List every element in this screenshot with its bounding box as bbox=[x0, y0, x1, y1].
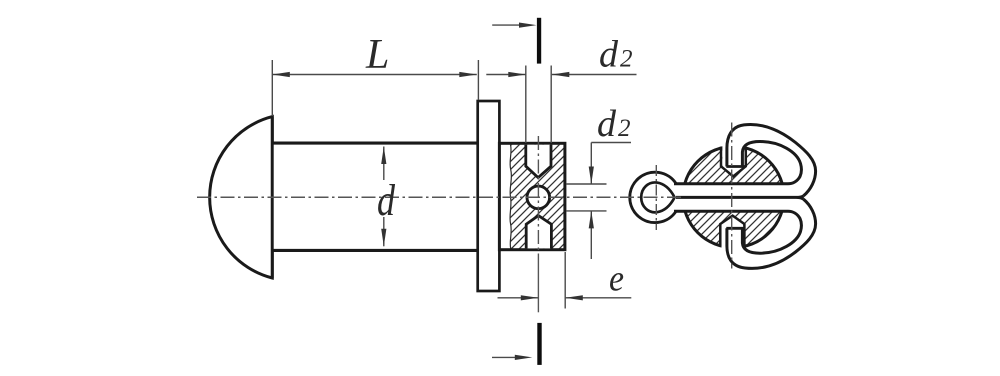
svg-text:2: 2 bbox=[618, 115, 631, 142]
svg-text:d: d bbox=[597, 103, 617, 145]
svg-text:d: d bbox=[377, 176, 396, 225]
svg-text:2: 2 bbox=[620, 46, 633, 73]
svg-text:L: L bbox=[365, 32, 389, 78]
svg-text:e: e bbox=[609, 259, 624, 300]
svg-text:d: d bbox=[599, 34, 619, 76]
